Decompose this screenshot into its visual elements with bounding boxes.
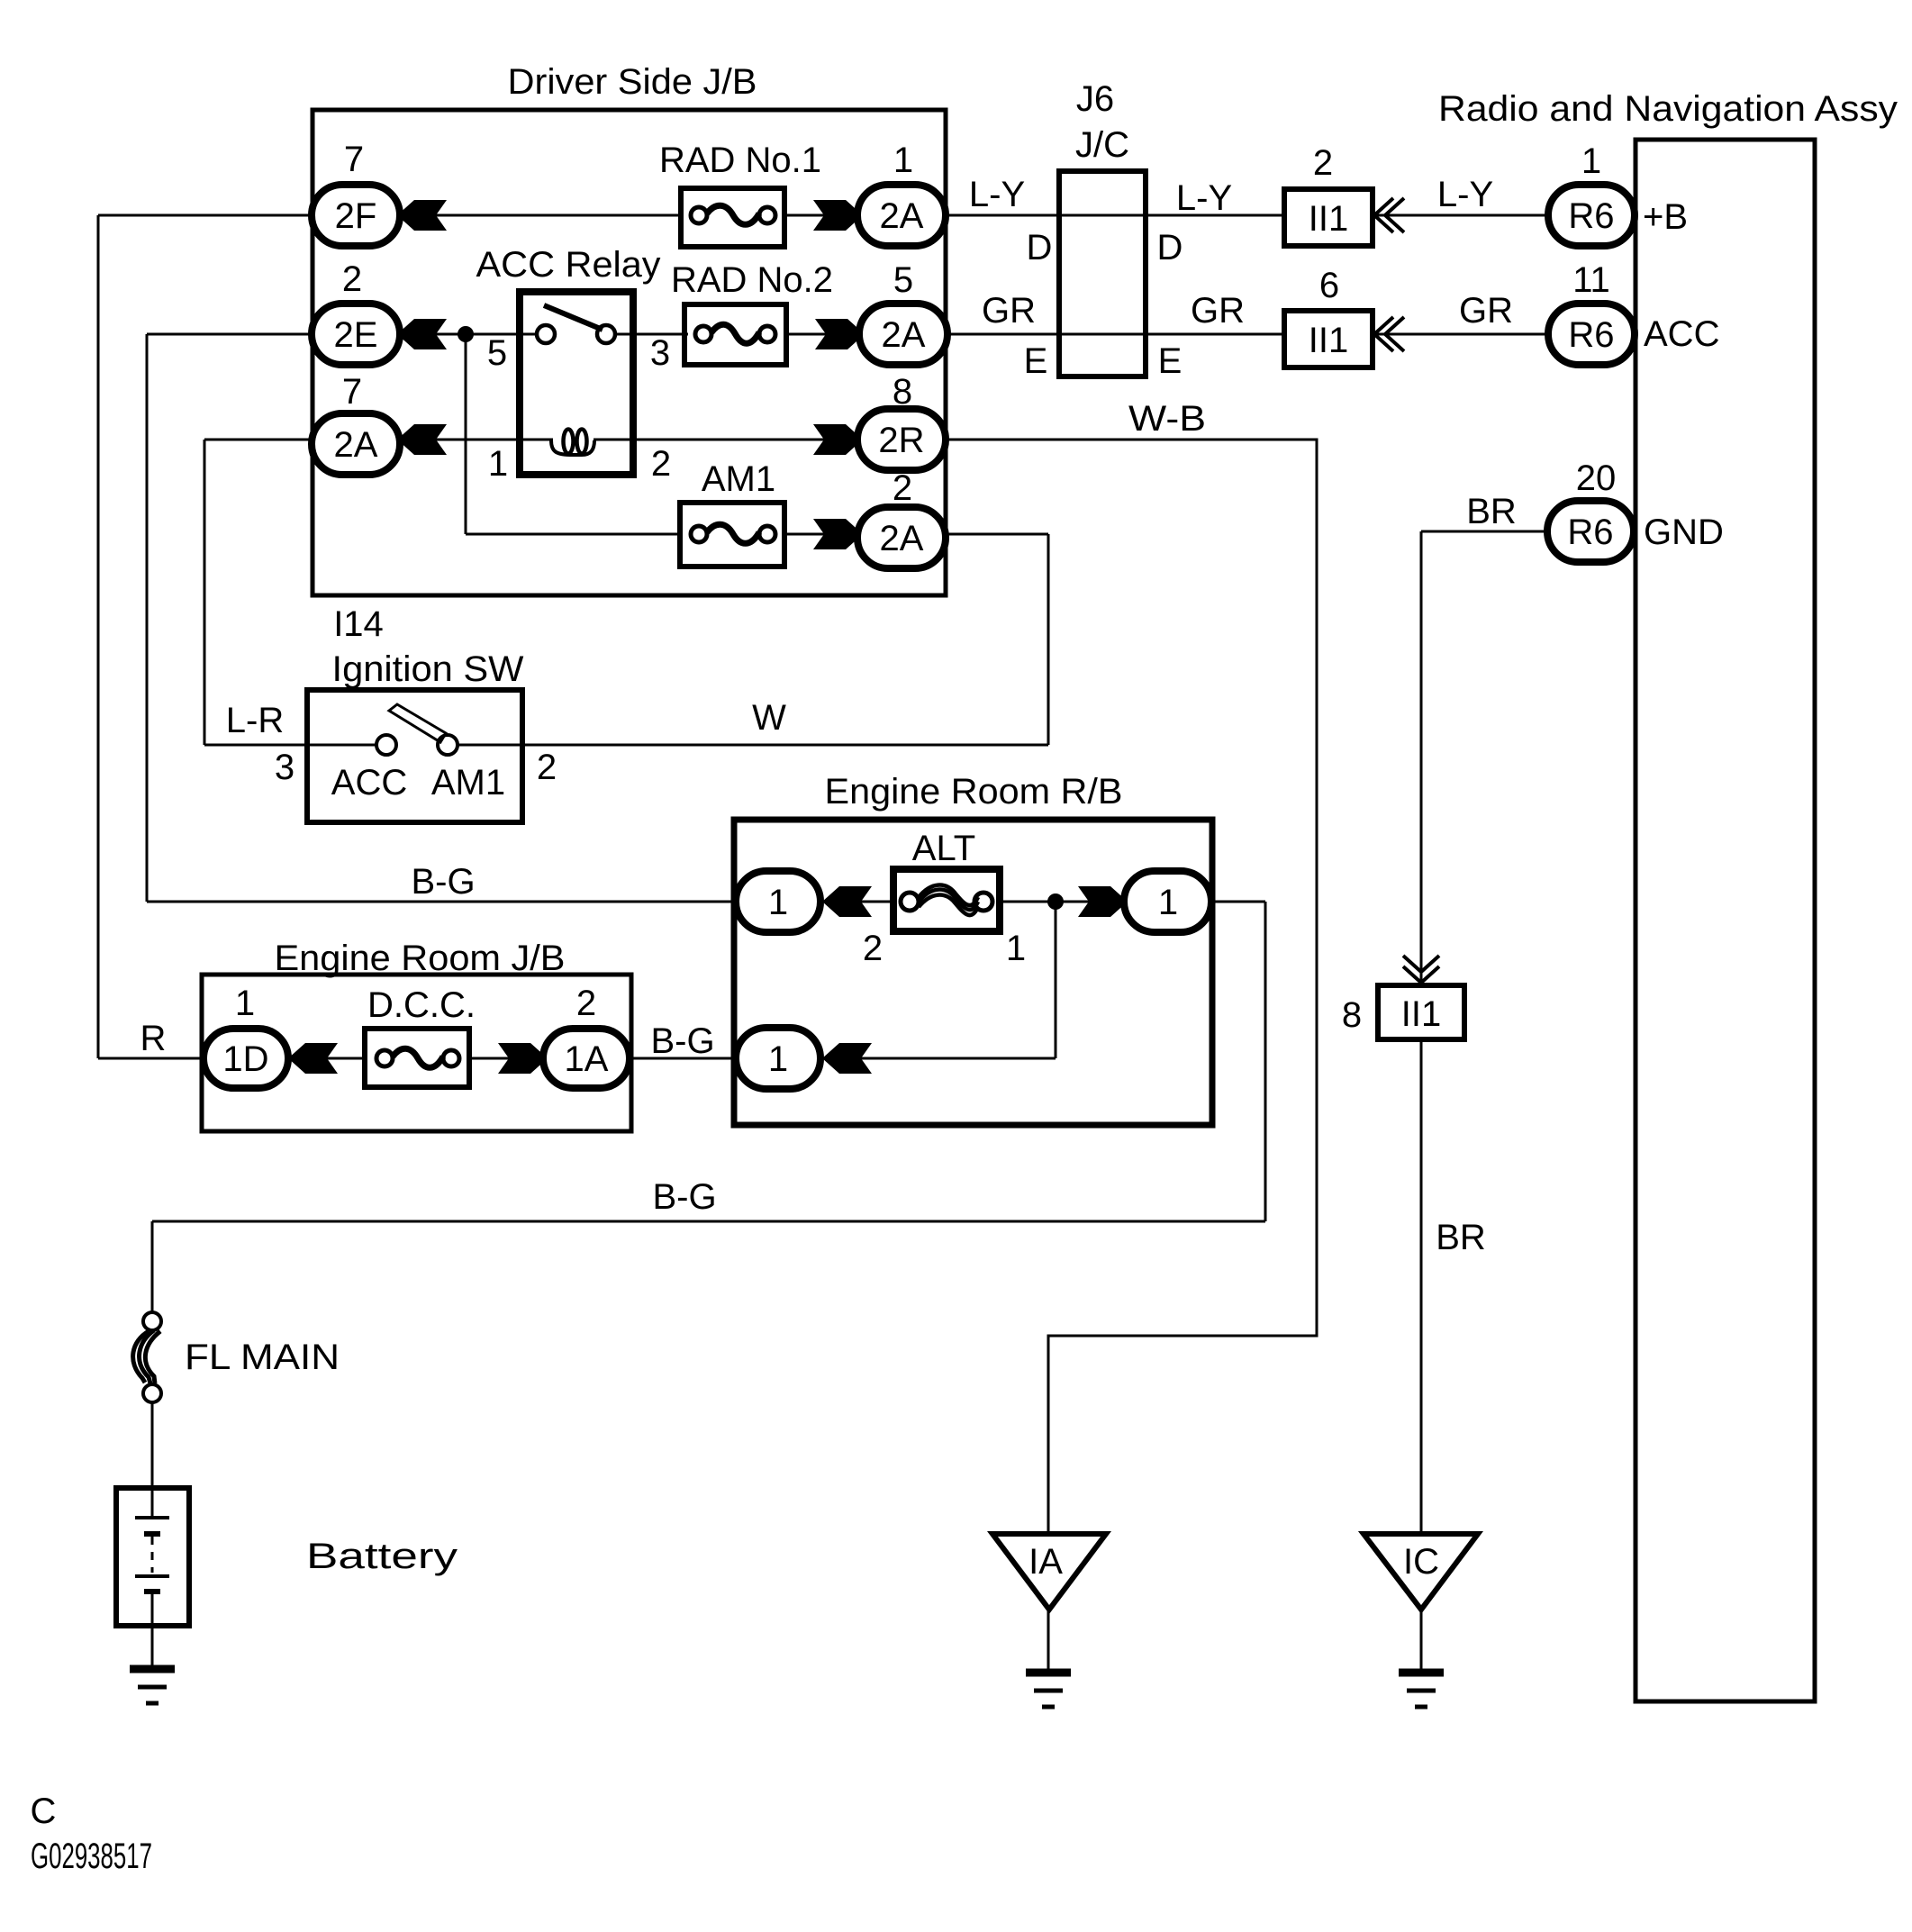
relay contact left xyxy=(537,325,555,343)
ALT fuse circles xyxy=(901,893,919,911)
wire ALT fuse to oval 1 right (through junction) xyxy=(998,901,1126,903)
wire row2 oval 2E to ACC relay contact xyxy=(400,333,535,336)
svg-text:Driver Side J/B: Driver Side J/B xyxy=(508,62,757,102)
wire relay pin5 riser from junction down to AM1 row xyxy=(465,334,467,534)
svg-text:2F: 2F xyxy=(335,196,377,236)
svg-text:1: 1 xyxy=(488,444,508,484)
svg-text:FL MAIN: FL MAIN xyxy=(185,1338,340,1377)
svg-text:L-R: L-R xyxy=(226,701,284,740)
svg-text:2R: 2R xyxy=(878,421,924,460)
svg-text:ALT: ALT xyxy=(912,829,975,868)
svg-text:II1: II1 xyxy=(1309,321,1348,360)
wire bottom B-G horizontal to battery riser xyxy=(152,1220,1265,1223)
battery internals xyxy=(151,1488,154,1518)
wire W-B from 2R right then down and left to IA xyxy=(944,440,1317,1534)
svg-text:2: 2 xyxy=(863,929,883,968)
connector triangle IC xyxy=(1364,1534,1478,1610)
svg-text:B-G: B-G xyxy=(650,1021,714,1061)
svg-text:R: R xyxy=(140,1019,167,1058)
wire row2 relay contact to fuse RAD No.2 xyxy=(617,333,688,336)
arrow to oval 1 top-right xyxy=(1078,886,1128,917)
battery box xyxy=(116,1488,189,1626)
svg-text:II1: II1 xyxy=(1309,199,1348,239)
arrow to 2R xyxy=(813,424,863,455)
FL MAIN fusible link squiggle xyxy=(133,1331,149,1383)
svg-text:L-Y: L-Y xyxy=(1176,178,1232,218)
wire row1 II1 to R6 +B (L-Y) xyxy=(1371,214,1549,217)
arrow into oval 1 bottom-left xyxy=(822,1043,872,1074)
connector oval 2F pin 7 xyxy=(312,185,400,246)
connector oval 1 top-right xyxy=(1124,871,1211,932)
svg-text:G02938517: G02938517 xyxy=(31,1837,152,1876)
svg-text:Engine Room J/B: Engine Room J/B xyxy=(275,939,566,978)
arrow into oval 1 top-left xyxy=(822,886,872,917)
svg-text:2: 2 xyxy=(893,468,912,508)
svg-text:Engine Room R/B: Engine Room R/B xyxy=(825,772,1123,812)
svg-text:C: C xyxy=(31,1791,57,1831)
svg-text:1: 1 xyxy=(768,883,788,922)
connector oval R6 ACC pin 11 xyxy=(1548,304,1635,365)
wire row1 oval 2F to fuse RAD No.1 xyxy=(400,214,683,217)
wire FL MAIN to battery xyxy=(151,1402,154,1488)
wire R/B bottom oval 1 to riser x=1172 xyxy=(820,1057,1056,1060)
connector triangle IA xyxy=(992,1534,1106,1610)
svg-text:1: 1 xyxy=(1158,883,1178,922)
svg-text:2: 2 xyxy=(1313,143,1333,183)
wire Ignition SW row left xyxy=(204,744,377,747)
connector oval 2A row1 pin 1 xyxy=(857,185,946,246)
svg-text:2E: 2E xyxy=(334,315,378,355)
ALT fusible link squiggle xyxy=(919,885,978,906)
wire Ignition SW row right (W) xyxy=(458,744,1048,747)
fuse RAD No.1 xyxy=(681,188,784,247)
svg-text:3: 3 xyxy=(650,333,670,373)
svg-text:2A: 2A xyxy=(880,196,924,236)
svg-text:5: 5 xyxy=(893,260,913,300)
svg-text:D: D xyxy=(1027,228,1053,268)
fuse D.C.C. xyxy=(365,1029,469,1087)
connector II1 pin 8 xyxy=(1378,985,1464,1039)
svg-text:E: E xyxy=(1024,341,1048,381)
svg-text:11: 11 xyxy=(1572,260,1610,300)
receive chevrons II1 row2 xyxy=(1374,317,1393,351)
wire BR riser upper segment down to II1 connector 8 xyxy=(1420,531,1423,985)
svg-text:2: 2 xyxy=(576,984,596,1023)
connector oval 1D xyxy=(204,1029,288,1088)
wire IC to ground xyxy=(1420,1610,1423,1673)
arrow into 2A left xyxy=(397,424,447,455)
junction dot at relay pin 5 branch xyxy=(458,326,474,342)
wire battery riser x=169 down to FL MAIN xyxy=(151,1221,154,1312)
connector oval 1 top-left xyxy=(736,871,820,932)
wire oval 2A to W riser xyxy=(944,533,1048,536)
svg-text:D: D xyxy=(1157,228,1183,268)
arrow to 2A row2 xyxy=(815,319,865,349)
svg-text:Battery: Battery xyxy=(306,1537,458,1576)
svg-text:BR: BR xyxy=(1466,492,1517,531)
svg-text:7: 7 xyxy=(342,372,362,412)
wire riser x=227 from 2A down to Ignition SW xyxy=(204,440,206,745)
svg-text:IA: IA xyxy=(1028,1542,1063,1582)
svg-text:7: 7 xyxy=(344,140,364,179)
ACC Relay box xyxy=(520,292,633,475)
Driver Side J/B box xyxy=(313,110,946,595)
relay contact right xyxy=(597,325,615,343)
wire D.C.C. fuse to oval 1A xyxy=(467,1057,545,1060)
wire riser x=163 from 2E down to Engine Room R/B row xyxy=(146,334,149,902)
svg-text:2A: 2A xyxy=(334,425,378,465)
ignition contact ACC xyxy=(376,735,396,755)
wire R/B oval 1 to ALT fuse xyxy=(820,901,895,903)
receive chevrons II1 row1 xyxy=(1374,198,1393,232)
svg-text:II1: II1 xyxy=(1401,994,1441,1034)
svg-text:L-Y: L-Y xyxy=(1437,175,1493,214)
svg-text:R6: R6 xyxy=(1567,512,1613,552)
svg-text:+B: +B xyxy=(1643,197,1688,237)
svg-text:D.C.C.: D.C.C. xyxy=(367,985,476,1025)
wire relay coil row from oval 2A xyxy=(400,439,553,441)
ground below IA xyxy=(1026,1669,1071,1677)
fuse RAD No.2 xyxy=(684,304,786,365)
connector II1 pin 6 xyxy=(1284,311,1373,367)
connector oval 2R pin 8 xyxy=(857,409,946,470)
connector oval 2E pin 2 xyxy=(312,304,400,365)
svg-text:GR: GR xyxy=(982,291,1036,331)
Engine Room J/B box xyxy=(202,975,631,1131)
wire row1 oval 2A to II1 (L-Y, through J6 J/C) xyxy=(944,214,1286,217)
FL MAIN top terminal xyxy=(143,1312,161,1330)
relay coil xyxy=(551,440,594,455)
svg-text:ACC: ACC xyxy=(331,763,407,803)
svg-text:1: 1 xyxy=(893,141,913,180)
svg-text:5: 5 xyxy=(487,333,507,373)
svg-text:L-Y: L-Y xyxy=(969,175,1025,214)
connector oval 2A row4 pin 2 xyxy=(857,507,946,568)
svg-text:ACC Relay: ACC Relay xyxy=(476,245,661,285)
receive chevrons into II1 pin 8 xyxy=(1403,966,1439,983)
FL MAIN bottom terminal xyxy=(143,1384,161,1402)
wire IA to ground xyxy=(1047,1610,1050,1673)
Ignition SW box xyxy=(307,690,522,822)
svg-text:2A: 2A xyxy=(882,315,926,355)
wire battery to ground xyxy=(151,1626,154,1669)
svg-text:1: 1 xyxy=(235,984,255,1023)
wire B-G oval 1A to Engine Room R/B oval 1 xyxy=(628,1057,738,1060)
svg-text:8: 8 xyxy=(1342,995,1362,1035)
ignition contact AM1 xyxy=(438,735,458,755)
svg-text:R6: R6 xyxy=(1568,196,1614,236)
svg-text:1: 1 xyxy=(1006,929,1026,968)
wire BR riser lower segment down to IC xyxy=(1420,1039,1423,1534)
arrow to 2A row4 xyxy=(813,519,863,549)
arrow into 2F xyxy=(397,200,447,231)
svg-text:ACC: ACC xyxy=(1644,314,1719,354)
svg-text:2: 2 xyxy=(342,259,362,299)
svg-text:B-G: B-G xyxy=(652,1177,716,1217)
arrow to 2A row1 xyxy=(813,200,863,231)
svg-text:Ignition SW: Ignition SW xyxy=(332,649,524,689)
wire 2F row to Engine Room J/B riser (R wire) xyxy=(98,214,316,217)
svg-text:2: 2 xyxy=(537,748,557,787)
svg-text:W-B: W-B xyxy=(1128,399,1206,439)
wire W riser x=1164 down to Ignition SW row xyxy=(1047,534,1050,745)
ground below battery xyxy=(130,1665,175,1673)
J6 J/C box xyxy=(1059,171,1146,376)
svg-text:B-G: B-G xyxy=(411,862,475,902)
arrow to 1A xyxy=(498,1043,548,1074)
wire relay coil row to oval 2R xyxy=(594,439,859,441)
connector oval R6 +B pin 1 xyxy=(1548,185,1635,246)
svg-text:RAD No.2: RAD No.2 xyxy=(671,260,833,300)
wire 1D oval to D.C.C. fuse xyxy=(288,1057,367,1060)
fuse AM1 xyxy=(680,503,784,567)
arrow into 2E xyxy=(397,319,447,349)
wire row2 II1 to R6 ACC (GR) xyxy=(1371,333,1549,336)
svg-text:BR: BR xyxy=(1436,1218,1486,1257)
svg-text:J6: J6 xyxy=(1076,79,1114,119)
svg-text:RAD No.1: RAD No.1 xyxy=(659,141,821,180)
svg-text:I14: I14 xyxy=(333,604,384,644)
svg-text:1: 1 xyxy=(768,1039,788,1079)
svg-text:R6: R6 xyxy=(1568,315,1614,355)
wire AM1 fuse to oval 2A xyxy=(783,533,859,536)
svg-text:AM1: AM1 xyxy=(702,459,775,499)
svg-text:8: 8 xyxy=(893,372,912,412)
ground below IC xyxy=(1399,1669,1444,1677)
svg-text:E: E xyxy=(1158,341,1183,381)
svg-text:AM1: AM1 xyxy=(431,763,505,803)
svg-text:W: W xyxy=(752,698,786,738)
relay switch blade xyxy=(544,305,603,330)
junction dot at ALT output branch xyxy=(1047,893,1064,910)
connector oval 2A row2 pin 5 xyxy=(859,304,947,365)
svg-text:2: 2 xyxy=(651,444,671,484)
ignition switch blade xyxy=(389,704,446,742)
svg-text:2A: 2A xyxy=(880,519,924,558)
Radio and Navigation Assy box xyxy=(1636,140,1815,1701)
svg-text:1: 1 xyxy=(1581,141,1601,181)
svg-text:20: 20 xyxy=(1576,458,1617,498)
svg-text:GND: GND xyxy=(1644,512,1724,552)
svg-text:GR: GR xyxy=(1459,291,1513,331)
svg-text:Radio and Navigation Assy: Radio and Navigation Assy xyxy=(1438,89,1898,129)
wire 1D row from riser to oval 1D xyxy=(98,1057,205,1060)
connector oval 1 bottom-left xyxy=(736,1028,820,1089)
wire riser x=1172 up to junction at ALT output xyxy=(1055,902,1057,1058)
arrow into 1D xyxy=(288,1043,338,1074)
fusible link ALT box xyxy=(893,869,1000,931)
connector oval R6 GND pin 20 xyxy=(1547,501,1634,562)
svg-text:J/C: J/C xyxy=(1075,125,1129,165)
svg-text:3: 3 xyxy=(275,748,295,787)
connector II1 pin 2 xyxy=(1284,189,1373,246)
svg-text:6: 6 xyxy=(1319,266,1339,305)
wire row2 fuse RAD No.2 to oval 2A xyxy=(784,333,861,336)
wire row1 fuse RAD No.1 to oval 2A xyxy=(783,214,859,217)
wire BR from R6 GND left xyxy=(1421,531,1547,533)
wire B-G horizontal into Engine Room R/B oval xyxy=(147,901,738,903)
wire 2A left row segment xyxy=(204,439,316,441)
wire B-G riser x=1405 down to bottom B-G wire xyxy=(1264,902,1267,1221)
svg-text:1A: 1A xyxy=(565,1039,609,1079)
svg-text:IC: IC xyxy=(1403,1542,1439,1582)
connector oval 1A xyxy=(543,1029,630,1088)
wire 2E row left segment (B-G) xyxy=(147,333,316,336)
connector oval 2A pin 7 left xyxy=(312,413,400,475)
svg-text:1D: 1D xyxy=(222,1039,268,1079)
svg-text:GR: GR xyxy=(1191,291,1245,331)
wire R/B right oval 1 to B-G riser xyxy=(1210,901,1265,903)
wire riser x=109 from 2F down to 1D row xyxy=(97,215,100,1058)
Engine Room R/B box xyxy=(734,820,1212,1125)
wire AM1 row from riser to fuse AM1 xyxy=(466,533,683,536)
wire row2 oval 2A to II1 (GR, through J6 J/C) xyxy=(946,333,1286,336)
